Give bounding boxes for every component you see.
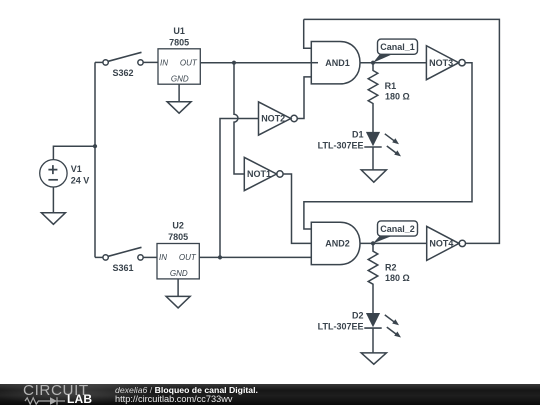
- svg-text:IN: IN: [159, 253, 167, 262]
- svg-text:NOT2: NOT2: [261, 114, 285, 124]
- svg-text:180 Ω: 180 Ω: [385, 92, 410, 102]
- svg-text:U1: U1: [173, 26, 185, 36]
- svg-text:LTL-307EE: LTL-307EE: [318, 322, 364, 332]
- svg-text:7805: 7805: [169, 38, 189, 48]
- svg-text:24 V: 24 V: [71, 176, 90, 186]
- svg-text:Canal_2: Canal_2: [380, 224, 415, 234]
- svg-text:R1: R1: [385, 81, 397, 91]
- svg-text:IN: IN: [160, 59, 168, 68]
- svg-text:AND1: AND1: [325, 58, 350, 68]
- svg-text:7805: 7805: [168, 232, 188, 242]
- svg-text:V1: V1: [71, 164, 82, 174]
- svg-text:180 Ω: 180 Ω: [385, 273, 410, 283]
- svg-text:OUT: OUT: [179, 253, 197, 262]
- svg-text:LTL-307EE: LTL-307EE: [318, 140, 364, 150]
- svg-text:U2: U2: [172, 221, 184, 231]
- svg-text:S361: S361: [112, 263, 133, 273]
- svg-text:GND: GND: [171, 74, 189, 83]
- svg-text:OUT: OUT: [180, 59, 198, 68]
- svg-text:AND2: AND2: [325, 239, 350, 249]
- svg-text:R2: R2: [385, 262, 397, 272]
- svg-text:D1: D1: [352, 130, 364, 140]
- svg-text:S362: S362: [112, 68, 133, 78]
- svg-text:D2: D2: [352, 311, 364, 321]
- svg-text:GND: GND: [170, 269, 188, 278]
- svg-text:Canal_1: Canal_1: [380, 42, 415, 52]
- svg-text:NOT4: NOT4: [429, 239, 453, 249]
- svg-text:NOT1: NOT1: [247, 169, 271, 179]
- svg-text:NOT3: NOT3: [429, 58, 453, 68]
